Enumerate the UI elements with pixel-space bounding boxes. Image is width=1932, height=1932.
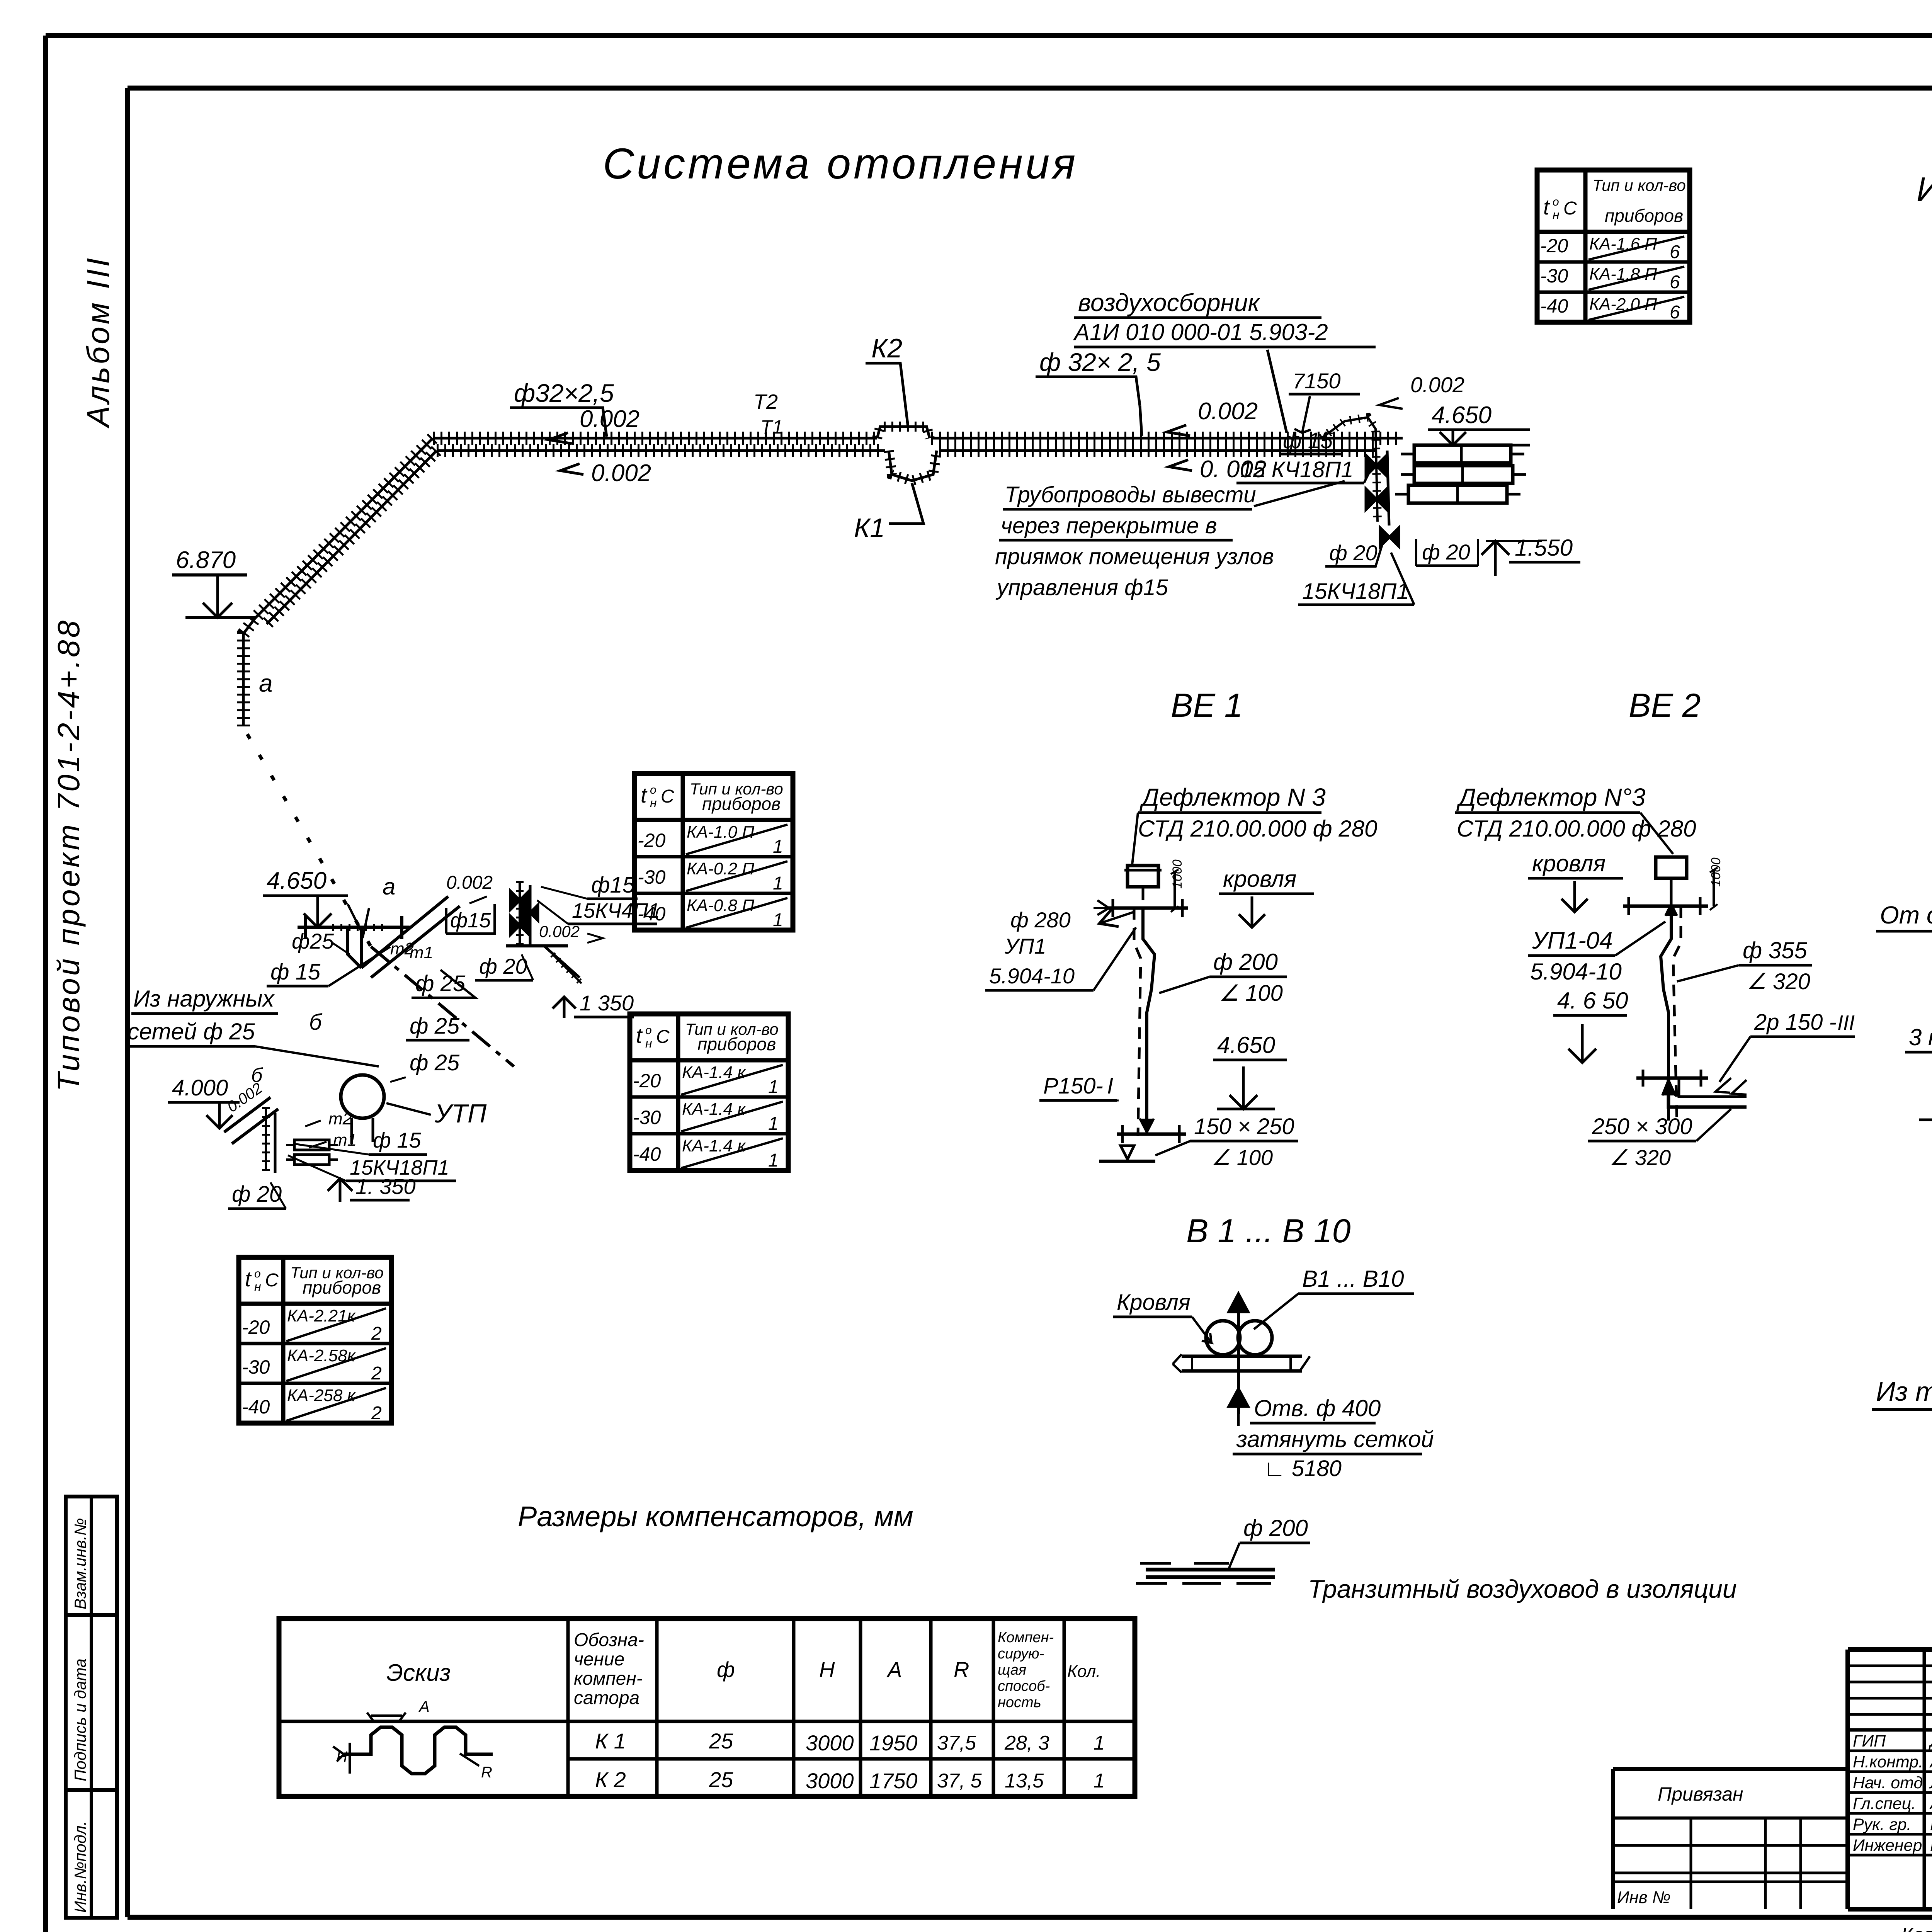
UTP label [386, 1099, 487, 1128]
label 0.002 right upper with arrow [1167, 398, 1258, 436]
BE2 250x300 label [1588, 1109, 1731, 1170]
svg-text:Т2: Т2 [753, 390, 778, 413]
svg-text:ф25: ф25 [292, 929, 334, 953]
compensator dimensions table [279, 1619, 1135, 1796]
svg-text:1 350: 1 350 [580, 991, 634, 1015]
svg-text:Индивидуальный тепловой пунк: Индивидуальный тепловой пункт [1917, 170, 1932, 208]
svg-text:Взам.инв.№: Взам.инв.№ [71, 1518, 89, 1609]
label 15KCH18P1 lower assembly [288, 1155, 456, 1181]
BE1 roof flange [1094, 899, 1188, 917]
svg-text:0.002: 0.002 [446, 872, 493, 893]
leader vozduhosbornik to pipe [1267, 350, 1287, 433]
svg-text:25: 25 [709, 1767, 733, 1792]
table heater types bottom-left (KA-2.21k) [239, 1257, 391, 1423]
BE1 f280 UP1 labels [985, 908, 1136, 990]
svg-text:6.870: 6.870 [176, 547, 236, 573]
BE2 riser duct [1661, 904, 1681, 1124]
svg-text:∟ 5180: ∟ 5180 [1264, 1456, 1342, 1481]
svg-text:Компен-: Компен- [998, 1629, 1054, 1646]
svg-text:ф15: ф15 [591, 872, 635, 898]
svg-text:1: 1 [768, 1077, 779, 1097]
transit duct symbol [1136, 1563, 1275, 1583]
main heating pipe T1 T2 with insulation hatching [243, 427, 1403, 726]
table heater types mid-B (KA-1.4K) [630, 1014, 788, 1171]
svg-text:4.000: 4.000 [172, 1075, 228, 1100]
svg-text:ф 20: ф 20 [1329, 541, 1378, 565]
svg-text:-20: -20 [638, 830, 665, 851]
svg-text:ф15: ф15 [450, 909, 491, 932]
BE1 150x250 label [1155, 1114, 1298, 1170]
svg-text:1: 1 [773, 837, 783, 857]
radiator block bottom [1395, 485, 1520, 503]
svg-text:13,5: 13,5 [1005, 1770, 1044, 1792]
svg-text:сирую-: сирую- [998, 1646, 1044, 1662]
svg-text:ф 280: ф 280 [1010, 908, 1071, 932]
svg-text:1: 1 [773, 873, 783, 894]
B group roof slab [1173, 1354, 1310, 1372]
svg-text:ф 20: ф 20 [1422, 540, 1470, 564]
elevation 1.350 lower left [328, 1174, 416, 1202]
svg-text:ф: ф [717, 1657, 735, 1682]
svg-text:Подпись и дата: Подпись и дата [71, 1658, 89, 1781]
margin text album [81, 256, 116, 429]
label T2 T1 on pipe [753, 390, 783, 438]
label K1 with leader [854, 483, 923, 543]
label trub0 text block [995, 481, 1345, 600]
BE1 f200 L100 label [1159, 949, 1287, 1006]
svg-text:б: б [251, 1064, 263, 1087]
svg-text:Инв.№подл.: Инв.№подл. [71, 1821, 89, 1913]
svg-text:0.002: 0.002 [580, 406, 639, 432]
pipe drop to radiators right [1321, 417, 1389, 526]
svg-text:37, 5: 37, 5 [937, 1770, 982, 1792]
valves on radiator riser [1366, 455, 1399, 546]
svg-text:щая: щая [998, 1662, 1026, 1678]
svg-text:СТД 210.00.000 ф 280: СТД 210.00.000 ф 280 [1138, 816, 1377, 842]
svg-text:0.002: 0.002 [1410, 372, 1464, 397]
label f25 under flange [292, 929, 350, 954]
svg-text:б: б [309, 1010, 323, 1035]
title block main [1848, 1650, 1932, 1911]
BE2 1000 dim [1709, 857, 1723, 910]
svg-text:R: R [481, 1764, 492, 1781]
B group otv label [1233, 1395, 1434, 1481]
svg-text:С: С [656, 1027, 670, 1047]
title sistema otopleniya [603, 139, 1078, 188]
svg-text:4.650: 4.650 [267, 867, 327, 894]
label f20 right assembly [475, 954, 533, 980]
label f20 boxed [1416, 539, 1478, 566]
BE1 title [1171, 687, 1243, 724]
svg-text:-20: -20 [242, 1316, 270, 1338]
margin label podpis i data [71, 1658, 89, 1781]
label 0.002 at riser [1379, 372, 1464, 409]
svg-text:6: 6 [1670, 242, 1680, 262]
label f32x2.5 right [1036, 348, 1161, 436]
BE1 krovlya label [1219, 866, 1314, 927]
svg-text:t: t [245, 1267, 252, 1291]
svg-text:7150: 7150 [1293, 369, 1341, 393]
BE1 deflector box [1124, 813, 1162, 900]
svg-text:Инв №: Инв № [1617, 1888, 1671, 1907]
svg-text:н: н [1553, 208, 1560, 222]
label f15 boxed diag [446, 904, 495, 934]
heading razmery kompensatorov [518, 1500, 913, 1532]
svg-text:5.904-10: 5.904-10 [1530, 959, 1622, 985]
label b mid [309, 1010, 323, 1035]
svg-text:Отв. ф 400: Отв. ф 400 [1254, 1395, 1381, 1421]
svg-text:250 × 300: 250 × 300 [1592, 1114, 1692, 1139]
svg-text:ВЕ 1: ВЕ 1 [1171, 687, 1243, 724]
svg-text:К 2: К 2 [595, 1767, 626, 1792]
svg-text:1: 1 [1094, 1732, 1105, 1754]
svg-text:УП1-04: УП1-04 [1532, 927, 1613, 954]
svg-text:Рук. гр.: Рук. гр. [1853, 1815, 1911, 1834]
BE1 riser duct [1134, 908, 1155, 1136]
svg-text:приборов: приборов [702, 794, 781, 814]
svg-text:сатора: сатора [574, 1688, 639, 1708]
svg-text:0.002: 0.002 [539, 922, 580, 940]
margin label inv n podl [71, 1821, 89, 1913]
svg-text:воздухосборник: воздухосборник [1078, 289, 1260, 316]
svg-text:н: н [650, 796, 657, 810]
svg-text:кровля: кровля [1532, 850, 1605, 876]
B group fan circles [1206, 1321, 1272, 1355]
svg-text:4. 6 50: 4. 6 50 [1557, 988, 1628, 1014]
label f25 mid2 [406, 1014, 469, 1040]
svg-text:ф 200: ф 200 [1213, 949, 1278, 975]
BE1 drain funnel [1099, 1146, 1155, 1161]
svg-text:Дефлектор N°3: Дефлектор N°3 [1456, 783, 1646, 811]
svg-text:ф 200: ф 200 [1243, 1515, 1308, 1541]
label f15 at riser [1279, 428, 1341, 454]
labels f15 15KCH4P1 [537, 872, 660, 924]
svg-text:Из теплосети: Из теплосети [1876, 1376, 1932, 1406]
label a lower [383, 874, 395, 900]
svg-text:-30: -30 [633, 1107, 661, 1128]
svg-text:25: 25 [709, 1729, 733, 1753]
svg-text:3 к 4 - 47 - 70: 3 к 4 - 47 - 70 [1909, 1024, 1932, 1050]
left margin strip boxes [66, 1497, 117, 1918]
svg-text:В 1 ... В 10: В 1 ... В 10 [1186, 1213, 1351, 1250]
svg-text:В1 ... В10: В1 ... В10 [1302, 1266, 1404, 1292]
elevation 1.550 [1481, 535, 1580, 576]
svg-text:Н.контр.: Н.контр. [1853, 1753, 1923, 1771]
svg-text:Инженер: Инженер [1853, 1836, 1922, 1855]
svg-text:1: 1 [773, 910, 783, 930]
BE2 roof flange [1623, 893, 1708, 915]
svg-text:ф 32× 2, 5: ф 32× 2, 5 [1039, 348, 1161, 376]
svg-text:К2: К2 [871, 333, 902, 363]
label f32x2.5 left [510, 379, 614, 437]
svg-text:I: I [1107, 1073, 1113, 1099]
BE2 krovlya label [1528, 850, 1623, 912]
svg-text:Кол.: Кол. [1067, 1662, 1100, 1681]
svg-text:-40: -40 [633, 1143, 661, 1165]
svg-text:К 1: К 1 [595, 1729, 626, 1753]
svg-text:КА-0.2 П: КА-0.2 П [687, 859, 754, 878]
svg-text:R: R [954, 1657, 969, 1682]
svg-text:15КЧ18П1: 15КЧ18П1 [1302, 579, 1409, 604]
svg-text:т1: т1 [410, 943, 433, 962]
right assembly valves [510, 891, 538, 935]
svg-text:∠ 100: ∠ 100 [1219, 981, 1283, 1006]
elevation 1.350 right assembly [553, 991, 634, 1018]
svg-text:Нач. отд.: Нач. отд. [1853, 1774, 1927, 1792]
svg-text:Дефлектор N 3: Дефлектор N 3 [1139, 783, 1326, 811]
svg-text:УТП: УТП [434, 1099, 487, 1128]
svg-text:4.650: 4.650 [1217, 1032, 1275, 1058]
svg-text:1.550: 1.550 [1515, 535, 1573, 561]
label f15 leader left [267, 947, 390, 986]
svg-text:Р150-: Р150- [1043, 1073, 1103, 1099]
label 0.002 left lower [560, 460, 651, 486]
svg-text:-30: -30 [1540, 265, 1568, 287]
lower-left T2 T1 labels [305, 1109, 357, 1150]
svg-text:6: 6 [1670, 272, 1680, 293]
BE1 R150 label [1039, 1073, 1119, 1100]
label 0.002 left upper with arrow [549, 406, 639, 444]
svg-text:КА-0.8 П: КА-0.8 П [687, 896, 754, 915]
privyazan sub-table [1613, 1769, 1848, 1909]
svg-text:о: о [650, 784, 656, 796]
svg-text:-40: -40 [242, 1396, 270, 1418]
label f40 iso bottom [1919, 1090, 1932, 1120]
label f25 mid1 [412, 970, 475, 998]
svg-text:Привязан: Привязан [1658, 1783, 1743, 1805]
svg-text:1: 1 [1094, 1770, 1105, 1792]
dash-dot line to lower assembly [371, 947, 514, 1066]
BE2 2p150 label [1716, 1010, 1855, 1095]
svg-text:Эскиз: Эскиз [386, 1660, 451, 1686]
elevation 4.650 left [263, 867, 348, 927]
label vozduhosbornik [1073, 289, 1376, 347]
label a upper [259, 669, 273, 697]
BE2 bottom flange [1636, 1070, 1708, 1095]
svg-text:С: С [265, 1270, 279, 1291]
svg-text:т1: т1 [333, 1131, 357, 1150]
right small assembly riser [520, 881, 530, 947]
svg-text:Гл.спец.: Гл.спец. [1853, 1794, 1916, 1813]
svg-text:1750: 1750 [869, 1769, 918, 1793]
svg-text:управления ф15: управления ф15 [995, 575, 1168, 600]
svg-text:о: о [645, 1024, 652, 1037]
svg-text:3000: 3000 [806, 1769, 854, 1793]
lower-left assembly pipes [224, 1097, 278, 1173]
svg-text:0.002: 0.002 [1198, 398, 1258, 425]
label iz teploseti [1872, 1335, 1932, 1441]
svg-text:А: А [418, 1698, 430, 1715]
BE1 4650 elev [1213, 1032, 1287, 1109]
label f20 lower left [228, 1182, 286, 1209]
label f20 lower [1325, 541, 1383, 566]
dotted continuation a [247, 734, 371, 947]
text tranzitny vozduhovod [1308, 1575, 1737, 1603]
B group krovlya label [1113, 1290, 1211, 1343]
label f200 transit [1229, 1515, 1310, 1569]
BE2 deflector box [1656, 857, 1687, 893]
table heater types top (KA-1.6P) [1537, 170, 1690, 323]
radiator block mid [1401, 466, 1526, 483]
svg-text:ВЕ 2: ВЕ 2 [1629, 687, 1701, 724]
svg-text:Гребенщикова: Гребенщикова [1930, 1815, 1932, 1834]
svg-text:15КЧ4П1: 15КЧ4П1 [572, 899, 660, 922]
svg-text:1: 1 [768, 1150, 779, 1171]
svg-text:Борисова: Борисова [1930, 1836, 1932, 1855]
svg-text:-20: -20 [1540, 235, 1568, 257]
svg-text:Альбом III: Альбом III [81, 256, 116, 429]
svg-text:ф 20: ф 20 [479, 954, 527, 978]
table heater types mid-A (KA-1.0P) [634, 774, 793, 930]
elevation 6.870 [172, 547, 255, 617]
svg-text:ф 15: ф 15 [373, 1128, 421, 1152]
label 0.002 right assembly [539, 922, 603, 943]
svg-text:С: С [1563, 198, 1577, 219]
svg-text:-30: -30 [638, 866, 665, 888]
label f15 lower assembly [294, 1128, 427, 1155]
label 15KCH18P1 riser [1236, 457, 1372, 483]
label ot otopleniya [1876, 901, 1932, 960]
svg-text:28, 3: 28, 3 [1004, 1732, 1049, 1754]
svg-text:2: 2 [371, 1323, 382, 1344]
svg-text:приборов: приборов [697, 1034, 776, 1054]
svg-text:1950: 1950 [869, 1731, 918, 1755]
svg-text:ф 25: ф 25 [410, 1014, 460, 1039]
radiator block top [1401, 445, 1524, 463]
svg-text:а: а [259, 669, 273, 697]
svg-text:4.650: 4.650 [1432, 402, 1492, 429]
B group duct to otv [1237, 1414, 1240, 1426]
svg-text:5.904-10: 5.904-10 [989, 964, 1075, 988]
svg-text:Система отопления: Система отопления [603, 139, 1078, 188]
B group vertical duct [1229, 1294, 1248, 1414]
svg-text:КА-1.0 П: КА-1.0 П [687, 823, 754, 842]
svg-text:Т1: Т1 [760, 416, 783, 438]
svg-text:А: А [886, 1657, 902, 1682]
svg-text:н: н [645, 1036, 652, 1050]
svg-text:Тип и кол-во: Тип и кол-во [1592, 176, 1686, 194]
svg-text:сетей ф 25: сетей ф 25 [128, 1019, 255, 1044]
svg-text:-30: -30 [242, 1356, 270, 1378]
BE1 bottom flange [1117, 1109, 1186, 1143]
label 3K4-47-70 stack lower [1905, 1024, 1932, 1052]
svg-text:15 КЧ18П1: 15 КЧ18П1 [1240, 457, 1354, 482]
flanged horizontal line left [298, 916, 410, 939]
svg-text:а: а [383, 874, 395, 900]
svg-text:приямок помещения узлов: приямок помещения узлов [995, 544, 1274, 569]
svg-text:ф 25: ф 25 [410, 1050, 460, 1075]
label f25 at UTP [390, 1050, 460, 1082]
svg-text:ность: ность [998, 1694, 1041, 1711]
svg-text:кровля: кровля [1223, 866, 1296, 892]
B group label B1...B10 [1254, 1266, 1414, 1329]
BE2 f355 label [1677, 937, 1812, 994]
svg-text:2: 2 [371, 1403, 382, 1423]
svg-text:ф 20: ф 20 [232, 1182, 282, 1207]
svg-text:2: 2 [371, 1363, 382, 1384]
label 0.002 diag [446, 872, 493, 903]
right assembly horizontal [506, 946, 582, 983]
svg-text:о: о [1553, 196, 1559, 208]
svg-text:Типовой проект 701-2-4+.88: Типовой проект 701-2-4+.88 [51, 618, 86, 1092]
svg-text:УП1: УП1 [1004, 934, 1046, 958]
label 0.002 right lower [1169, 456, 1266, 483]
svg-text:Н: Н [819, 1657, 835, 1682]
BE2 deflector label [1455, 783, 1696, 854]
label 15KCH18P1 lower [1298, 553, 1414, 605]
svg-text:А1И 010 000-01 5.903-2: А1И 010 000-01 5.903-2 [1073, 319, 1328, 345]
svg-text:К1: К1 [854, 513, 885, 543]
svg-text:ф 355: ф 355 [1743, 937, 1808, 963]
diagonal pipe T2 T1 to mid [361, 896, 460, 978]
margin label vzam inv [71, 1518, 89, 1609]
pipe vertical under flange [348, 927, 361, 968]
svg-text:н: н [254, 1280, 261, 1294]
UTP circle [341, 1075, 384, 1144]
svg-text:2р 150 -: 2р 150 - [1754, 1010, 1837, 1035]
BE1 deflector label [1138, 783, 1377, 842]
svg-text:6: 6 [1670, 302, 1680, 323]
elevation 4.000 [168, 1064, 265, 1128]
svg-text:-20: -20 [633, 1070, 661, 1092]
svg-text:0.002: 0.002 [591, 460, 651, 486]
svg-text:От отопления: От отопления [1880, 901, 1932, 929]
kopiroval label [1901, 1924, 1932, 1932]
label 4.650 right of riser [1428, 402, 1530, 445]
title individualny teplovoy punkt [1917, 170, 1932, 208]
BE1 1000 dim [1170, 859, 1185, 912]
svg-text:Обозна-: Обозна- [574, 1630, 644, 1650]
svg-text:приборов: приборов [1605, 206, 1683, 226]
radiator pair lower left [286, 1140, 338, 1165]
svg-text:1. 350: 1. 350 [355, 1174, 416, 1199]
svg-text:приборов: приборов [303, 1277, 381, 1298]
svg-text:затянуть сеткой: затянуть сеткой [1236, 1426, 1434, 1452]
svg-text:∠ 320: ∠ 320 [1609, 1145, 1671, 1170]
svg-text:чение: чение [574, 1649, 624, 1670]
B1 B10 title [1186, 1213, 1351, 1250]
svg-text:t: t [636, 1023, 643, 1048]
svg-text:компен-: компен- [574, 1668, 643, 1689]
svg-text:∠ 100: ∠ 100 [1211, 1145, 1273, 1170]
label K2 with leader [866, 333, 908, 427]
text iz naruzhnyh setey [126, 986, 379, 1066]
svg-text:о: о [254, 1267, 261, 1280]
margin text tipovoy proekt [51, 618, 86, 1092]
svg-text:Копировал: Копировал [1901, 1924, 1932, 1932]
svg-text:ф 15: ф 15 [1283, 428, 1333, 453]
svg-text:3000: 3000 [806, 1731, 854, 1755]
svg-text:ф32×2,5: ф32×2,5 [514, 379, 614, 407]
svg-text:Транзитный воздуховод в: Транзитный воздуховод в изоляции [1308, 1575, 1737, 1603]
svg-text:Размеры компенсаторов, мм: Размеры компенсаторов, мм [518, 1500, 913, 1532]
svg-text:Из наружных: Из наружных [133, 986, 275, 1012]
svg-text:ГИП: ГИП [1853, 1732, 1886, 1750]
svg-text:способ-: способ- [998, 1678, 1050, 1694]
svg-text:1: 1 [768, 1114, 779, 1134]
BE2 4650 elev [1553, 988, 1628, 1063]
svg-text:Трубопроводы вывести: Трубопроводы вывести [1005, 482, 1256, 507]
BE2 bottom duct elbow [1668, 1078, 1747, 1107]
svg-text:t: t [641, 783, 648, 807]
svg-text:-40: -40 [1540, 295, 1568, 317]
svg-text:∠ 320: ∠ 320 [1747, 969, 1810, 994]
svg-text:t: t [1543, 195, 1550, 219]
svg-text:37,5: 37,5 [937, 1732, 976, 1754]
svg-text:через перекрытие в: через перекрытие в [1001, 513, 1217, 538]
svg-text:III: III [1837, 1011, 1855, 1034]
svg-text:Кровля: Кровля [1117, 1290, 1190, 1315]
